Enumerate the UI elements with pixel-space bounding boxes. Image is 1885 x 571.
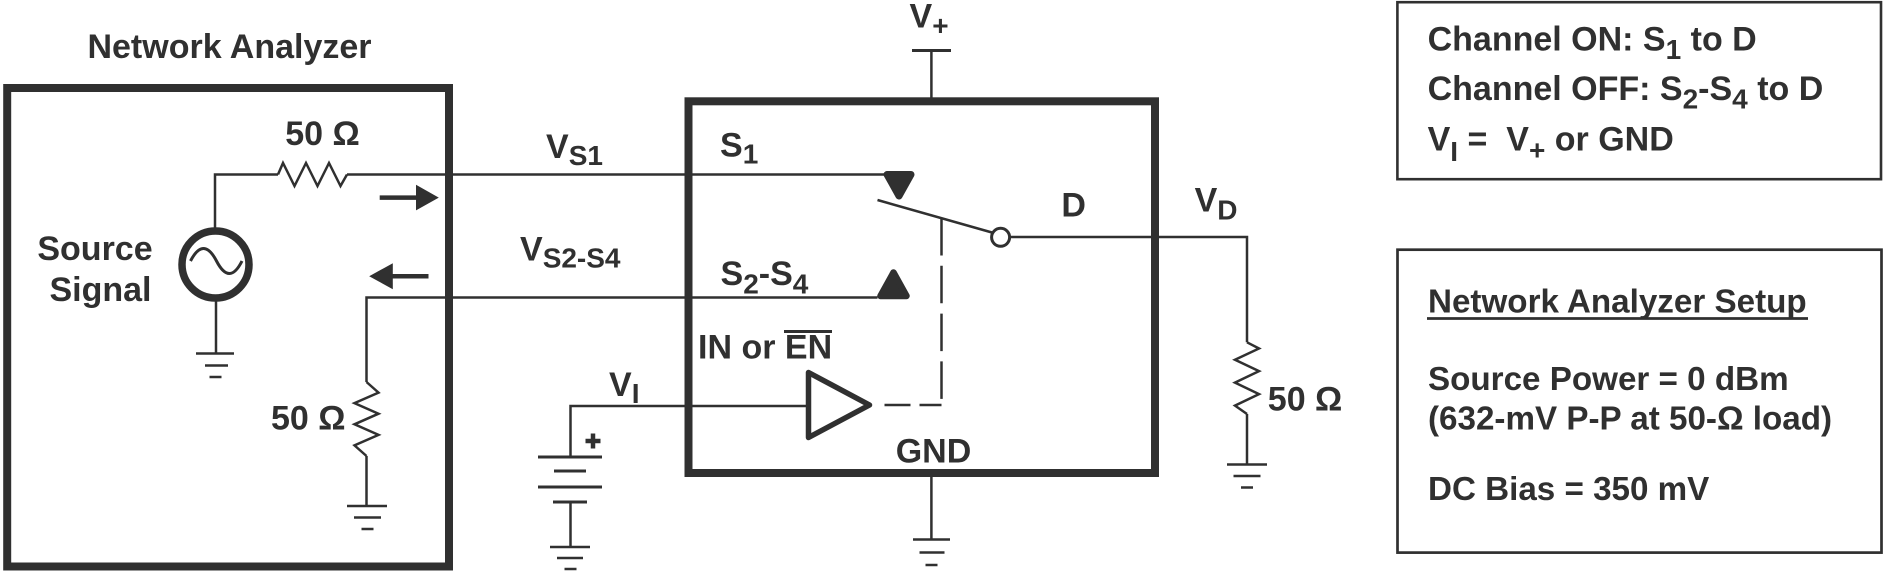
svg-text:Signal: Signal	[49, 271, 151, 309]
svg-text:DC Bias = 350 mV: DC Bias = 350 mV	[1428, 471, 1709, 508]
svg-text:50 Ω: 50 Ω	[1268, 381, 1343, 419]
svg-text:GND: GND	[896, 432, 972, 470]
svg-text:Channel ON: S1 to D: Channel ON: S1 to D	[1428, 21, 1757, 66]
svg-text:S1: S1	[720, 127, 758, 170]
svg-text:Network Analyzer Setup: Network Analyzer Setup	[1428, 283, 1807, 320]
svg-text:VI: VI	[609, 366, 639, 409]
svg-text:IN or EN: IN or EN	[698, 329, 832, 367]
svg-text:VI = V+ or GND: VI = V+ or GND	[1428, 121, 1674, 168]
svg-text:50 Ω: 50 Ω	[285, 115, 360, 153]
svg-text:50 Ω: 50 Ω	[271, 400, 346, 438]
svg-text:D: D	[1061, 187, 1086, 225]
svg-text:VD: VD	[1195, 182, 1238, 226]
svg-text:S2-S4: S2-S4	[721, 255, 809, 300]
svg-text:Source: Source	[37, 230, 152, 268]
svg-text:V+: V+	[910, 0, 949, 41]
svg-text:(632-mV P-P at 50-Ω load): (632-mV P-P at 50-Ω load)	[1428, 400, 1832, 437]
svg-text:Channel OFF: S2-S4 to D: Channel OFF: S2-S4 to D	[1428, 70, 1824, 115]
svg-text:VS1: VS1	[546, 128, 603, 171]
svg-text:Network Analyzer: Network Analyzer	[87, 28, 371, 66]
svg-text:VS2-S4: VS2-S4	[520, 231, 621, 274]
svg-text:Source Power = 0 dBm: Source Power = 0 dBm	[1428, 361, 1789, 398]
